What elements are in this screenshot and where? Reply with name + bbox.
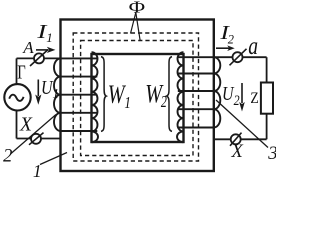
svg-text:2: 2	[161, 92, 167, 111]
svg-text:Z: Z	[250, 90, 258, 107]
svg-text:Γ: Γ	[17, 61, 26, 83]
svg-text:1: 1	[33, 161, 42, 179]
svg-text:1: 1	[52, 86, 59, 101]
svg-text:A: A	[22, 38, 34, 57]
svg-text:X: X	[19, 114, 33, 135]
svg-text:2: 2	[234, 93, 240, 109]
svg-text:a: a	[248, 31, 258, 60]
svg-text:2: 2	[228, 31, 235, 46]
svg-text:1: 1	[124, 93, 130, 112]
svg-text:X: X	[231, 142, 244, 162]
svg-text:Φ: Φ	[129, 0, 146, 16]
svg-text:1: 1	[46, 30, 53, 45]
svg-text:2: 2	[3, 147, 12, 167]
svg-text:3: 3	[267, 143, 276, 164]
